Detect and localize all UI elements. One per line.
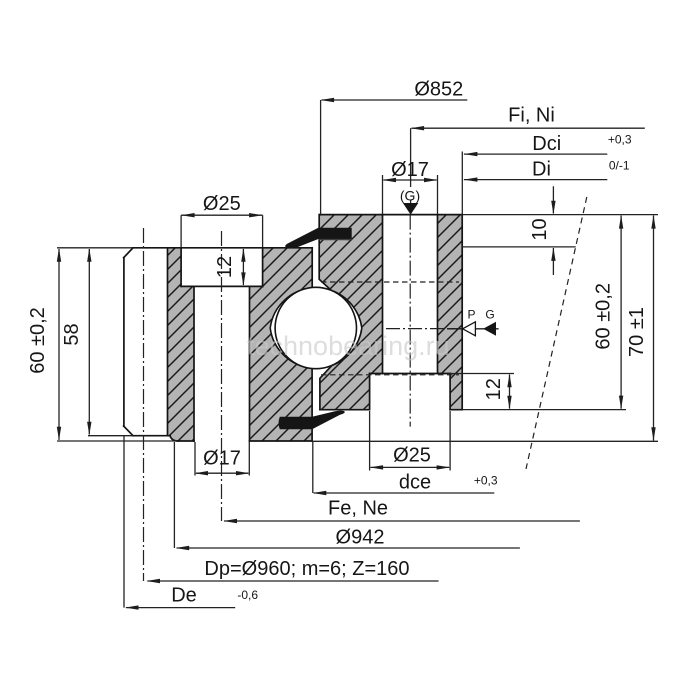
svg-text:Ø25: Ø25 <box>393 445 431 467</box>
svg-text:(G): (G) <box>400 188 420 204</box>
svg-text:dce: dce <box>399 472 431 494</box>
svg-text:Fi, Ni: Fi, Ni <box>508 105 555 127</box>
svg-text:60 ±0,2: 60 ±0,2 <box>592 283 614 350</box>
svg-text:10: 10 <box>529 218 551 240</box>
svg-text:-0,6: -0,6 <box>237 588 258 602</box>
svg-text:De: De <box>171 585 197 607</box>
svg-text:Fe, Ne: Fe, Ne <box>328 498 388 520</box>
svg-text:Dp=Ø960; m=6; Z=160: Dp=Ø960; m=6; Z=160 <box>204 558 409 580</box>
svg-text:12: 12 <box>214 256 236 278</box>
svg-text:G: G <box>485 308 494 322</box>
svg-text:P: P <box>467 308 475 322</box>
svg-text:60 ±0,2: 60 ±0,2 <box>27 307 49 374</box>
svg-text:Ø17: Ø17 <box>391 159 429 181</box>
svg-text:12: 12 <box>483 378 505 400</box>
svg-text:Ø17: Ø17 <box>203 448 241 470</box>
svg-text:Ø942: Ø942 <box>336 527 385 549</box>
svg-text:+0,3: +0,3 <box>608 133 632 147</box>
svg-text:0/-1: 0/-1 <box>609 159 630 173</box>
svg-text:Di: Di <box>532 159 551 181</box>
svg-text:technobearing.ru: technobearing.ru <box>247 331 450 361</box>
svg-text:Ø852: Ø852 <box>414 79 463 101</box>
svg-text:+0,3: +0,3 <box>474 474 498 488</box>
svg-text:58: 58 <box>61 323 83 345</box>
svg-text:Ø25: Ø25 <box>203 193 241 215</box>
svg-text:70 ±1: 70 ±1 <box>626 307 648 357</box>
svg-text:Dci: Dci <box>532 133 561 155</box>
